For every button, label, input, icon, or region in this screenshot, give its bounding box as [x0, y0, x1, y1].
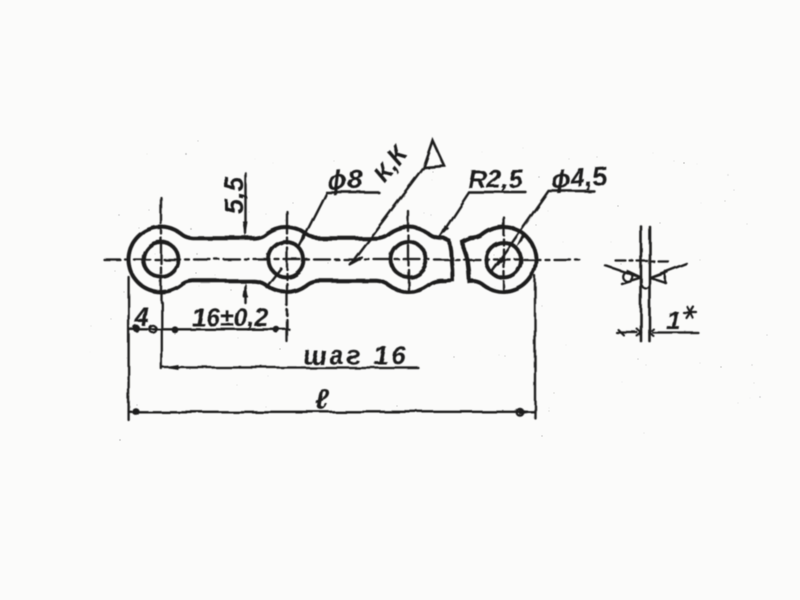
hole 3 — [391, 242, 426, 277]
dim end dots — [133, 325, 140, 332]
dimension L line — [129, 411, 535, 413]
hole 2 — [269, 242, 304, 277]
dimension 1 line with arrows — [617, 331, 638, 333]
flag triangle — [424, 141, 445, 168]
surface finish symbol right — [650, 264, 687, 278]
extension line lobe 1 (to pitch dimension) — [161, 302, 163, 369]
leader R2.5 — [440, 193, 527, 238]
asterisk near 1 — [684, 307, 697, 318]
svg-text:шаг 16: шаг 16 — [303, 340, 409, 370]
part outline: strip with lobes 1-3 up to break — [129, 227, 453, 292]
extension line left edge — [127, 277, 129, 420]
hole 1 — [144, 242, 179, 277]
centerline lobe 3 vertical — [407, 212, 409, 292]
centerline lobe 4 vertical — [502, 217, 504, 291]
svg-text:ϕ8: ϕ8 — [326, 164, 363, 196]
part outline: end lobe (after break) — [463, 227, 537, 292]
svg-text:R2,5: R2,5 — [468, 164, 523, 194]
hole 4 — [486, 243, 521, 278]
leader Ø4.5 through end hole — [493, 191, 595, 271]
surface finish symbol left — [605, 266, 641, 278]
section leader K.K — [353, 167, 425, 262]
leader Ø8 — [299, 193, 379, 247]
svg-text:5,5: 5,5 — [219, 175, 249, 214]
svg-text:ϕ4,5: ϕ4,5 — [550, 161, 608, 195]
centerline lobe 1 vertical — [160, 198, 162, 303]
thickness hook mark — [642, 285, 650, 289]
centerline horizontal (strip axis) — [104, 258, 582, 260]
dimension 5.5 line with arrows — [244, 173, 246, 233]
extension line right edge (L) — [534, 276, 536, 418]
side view strip section — [640, 227, 643, 342]
side view centerline — [616, 260, 668, 262]
svg-text:16±0,2: 16±0,2 — [192, 304, 268, 332]
centerline lobe 2 vertical — [286, 212, 288, 344]
dimension шаг 16 line — [163, 366, 418, 368]
svg-text:1: 1 — [666, 305, 680, 335]
dimension line 4 / 16±0.2 — [129, 328, 289, 330]
svg-text:ℓ: ℓ — [315, 384, 330, 415]
svg-text:4: 4 — [134, 302, 150, 332]
